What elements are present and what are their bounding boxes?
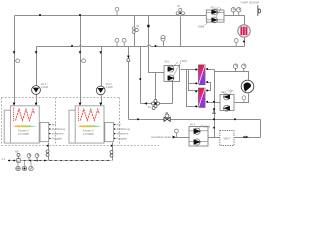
svg-text:Auf: Auf [117, 123, 121, 127]
air vent cluster x=180.3 [176, 9, 184, 15]
sensor on solar pipe [175, 129, 179, 133]
wire hx left connector x=188 [189, 70, 199, 91]
wire solar pipe y=137 [173, 137, 261, 139]
wire boiler2 left drop x=80 [80, 16, 82, 105]
pump group 40-1 box [164, 60, 188, 82]
twin pump group 40-4 [220, 89, 234, 111]
machine-room dashed boundary [2, 98, 160, 146]
wire crossing hop at x=148 [148, 45, 151, 47]
svg-text:AV: AV [136, 25, 139, 28]
sensors on bottom pipe [27, 154, 31, 158]
wire hx1 right outlet [207, 69, 215, 71]
svg-text:2,2kW: 2,2kW [41, 86, 49, 89]
sensor on boiler1 left drop [16, 59, 20, 63]
boiler 2 control labels [117, 123, 131, 141]
svg-text:Freigabe: Freigabe [52, 137, 63, 141]
svg-text:2x5m: 2x5m [228, 89, 234, 92]
check valve on separator line [213, 108, 216, 111]
wire riser below heat meter [244, 38, 246, 47]
sensors on return pipe y=46 [115, 38, 119, 42]
wire separator vertical x=214 [214, 70, 216, 138]
wire crossing hop at x=80 [80, 46, 82, 47]
wire hx feed line y=69 [181, 70, 199, 107]
arrow on mixing pipe [144, 102, 147, 105]
sensor on boiler2 left drop [82, 59, 86, 63]
heat exchanger 1 [198, 65, 205, 85]
sensor near heat meter [234, 39, 238, 43]
wire air-vent connector x=180 [180, 17, 182, 47]
svg-text:Anschluss Solar: Anschluss Solar [151, 135, 171, 139]
boiler 1 body [4, 106, 39, 143]
svg-text:absperren: absperren [117, 132, 129, 136]
svg-text:2,0 MWh: 2,0 MWh [18, 132, 30, 136]
pump 40-1 boiler1 circle [32, 83, 49, 95]
motor valve on mixing pipe [164, 112, 170, 121]
svg-text:Freigabe: Freigabe [117, 137, 128, 141]
svg-text:AV: AV [177, 5, 180, 8]
gauges on hx top pipe [233, 64, 237, 68]
node dots top pipes [39, 14, 157, 80]
bottom distribution pipe dash-dot [8, 160, 112, 162]
pipe continuation symbol top right [258, 5, 261, 16]
wire expansion capsule stub x=163 [163, 42, 165, 47]
heat meter circle [238, 25, 250, 37]
gauges on top right pipe [231, 8, 241, 12]
wire right down leg x=260 [260, 120, 262, 138]
boiler1 drain valves [46, 145, 49, 157]
wire check-valve drop x=128 [128, 47, 130, 120]
wire boiler2 right drop x=101 [101, 47, 103, 105]
svg-text:DWM: DWM [198, 26, 204, 29]
flow arrows into boilers [13, 51, 103, 106]
wire boiler2 drain [112, 143, 114, 161]
valve square on riser x=148.4 [147, 25, 149, 27]
wire mixing riser x=156 [155, 73, 157, 101]
svg-text:1,4: 1,4 [1, 157, 5, 161]
pump 40-2 boiler2 circle [96, 83, 113, 95]
wire bottom mixing pipe y=119 [129, 119, 261, 121]
wire air-vent riser x=134 [134, 16, 136, 47]
boiler 2 control box [105, 123, 114, 142]
wire hx2 right bottom pipe [207, 102, 221, 104]
wire riser x=140 [140, 47, 142, 104]
solar pipe arrow right [246, 136, 249, 139]
wire top pipe right segment to riser [225, 16, 245, 26]
wire main return pipe y=46 [37, 46, 245, 48]
boiler 2 flame [78, 125, 102, 127]
node dots bottom pipe [8, 160, 45, 162]
boiler 1 burner bar [13, 108, 15, 122]
hx port dots [195, 68, 208, 107]
wire mixing pipe y=103 [141, 103, 173, 105]
svg-text:2,2kW: 2,2kW [106, 86, 114, 89]
svg-text:ZU/Störung: ZU/Störung [52, 127, 66, 131]
wire boiler1 drain [48, 143, 50, 161]
boiler 2 burner bar [77, 108, 79, 122]
svg-text:NB: NB [15, 151, 19, 154]
twin pump group 40-2 top right [198, 7, 224, 29]
boiler 1 control box [40, 123, 49, 142]
svg-text:VB07: VB07 [223, 136, 230, 140]
air vent cluster x=133.7 [132, 27, 138, 34]
boiler2 drain valves [110, 145, 113, 157]
wire boiler1 left drop x=14 [14, 16, 16, 105]
expansion capsule x=163 [161, 36, 165, 42]
sensor on pump return [242, 96, 246, 100]
svg-text:3,0kW: 3,0kW [203, 125, 211, 128]
check valve on drop x=128.4 [127, 56, 130, 59]
controller dashed box VB07 [220, 131, 234, 146]
mixing valve clover x=155.5 [152, 99, 160, 107]
svg-text:2,0 MWh: 2,0 MWh [83, 132, 95, 136]
svg-text:40-3: 40-3 [190, 123, 196, 126]
wire pump box 40-1 bottom drop x=172 [172, 81, 174, 104]
secondary pump circle [241, 80, 254, 93]
svg-text:1,5kW: 1,5kW [180, 60, 188, 63]
boiler 2 body [69, 106, 104, 143]
svg-text:absperren: absperren [52, 132, 64, 136]
svg-text:Auf: Auf [52, 123, 56, 127]
boiler 1 flame [13, 125, 37, 127]
wire top supply pipe y=15 [15, 15, 207, 17]
wire gauge pipe y=70 to pump [215, 72, 249, 81]
wire hx right bracket [207, 83, 211, 91]
boiler 2 heating zigzag [80, 109, 99, 120]
sensor on top pipe [115, 7, 119, 11]
wire boiler1 right drop x=36 [36, 47, 38, 105]
fill valve NB bottom left [15, 151, 20, 163]
svg-text:7 HKP 303/004: 7 HKP 303/004 [240, 0, 259, 4]
solar arrow [173, 136, 176, 139]
twin pump group 40-3 [189, 123, 211, 146]
boiler 1 heating zigzag [16, 109, 35, 120]
boiler 1 control labels [52, 123, 66, 141]
heat exchanger 2 [198, 88, 205, 108]
node dots lower right [137, 101, 245, 138]
meters below bottom pipe [16, 161, 33, 171]
svg-text:40-1: 40-1 [165, 61, 171, 64]
svg-text:ZU/Störung: ZU/Störung [117, 127, 131, 131]
wire riser x=148 top-pipe to pump group [149, 16, 167, 73]
wire pump down leg [235, 94, 249, 103]
